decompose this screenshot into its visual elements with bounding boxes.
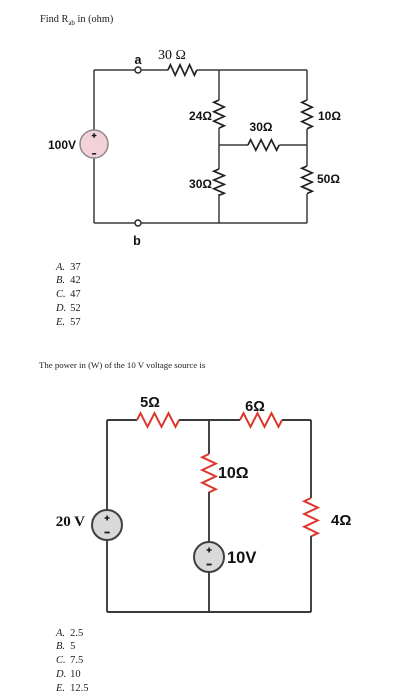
wire 10ohm to 10V source [208,492,210,542]
label 100V [48,138,76,152]
label 10ohm (circuit 2) [218,465,249,482]
wire left vertical (top segment) [93,70,95,130]
wire left vertical bottom (circuit 2) [106,540,108,612]
wire middle branch: top wire down to 24ohm [218,70,220,100]
wire node a to resistor 30ohm [141,69,168,71]
node a (open terminal) [135,67,141,73]
wire 4ohm to bottom-right corner [310,536,312,612]
label 20 V [56,514,85,530]
svg-text:6Ω: 6Ω [245,399,265,415]
options problem 1 [56,261,81,330]
label 5ohm [140,395,160,411]
wire middle branch top [208,420,210,454]
wire top: left corner to 5ohm [107,419,137,421]
wire middle horizontal: node to 30ohm [219,144,248,146]
svg-text:30Ω: 30Ω [189,177,212,191]
title problem 1 [40,14,113,27]
wire 24ohm to middle node [218,128,220,169]
svg-text:24Ω: 24Ω [189,109,212,123]
label a [135,53,143,67]
resistor R 30ohm (top) [168,65,197,75]
svg-text:10Ω: 10Ω [218,465,249,482]
resistor 50ohm [302,166,312,194]
svg-text:a: a [135,53,143,67]
resistor 4ohm [304,498,318,536]
label 10ohm [318,109,341,123]
svg-text:50Ω: 50Ω [317,172,340,186]
svg-text:b: b [133,234,141,248]
svg-text:10V: 10V [227,549,256,567]
wire left vertical top (circuit 2) [106,420,108,510]
label 50ohm [317,172,340,186]
wire 6ohm to top-right corner [282,419,311,421]
wire resistor to top-right corner [197,69,307,71]
voltage source 10V [194,542,224,572]
label b [133,234,141,248]
wire 10ohm to 50ohm [306,129,308,166]
svg-text:100V: 100V [48,138,76,152]
wire bottom: node b to right [141,222,307,224]
resistor 10ohm (circuit 2) [202,454,216,492]
label 24ohm [189,109,212,123]
wire right vertical top (circuit 2) [310,420,312,498]
wire 10V source to bottom [208,572,210,612]
resistor 30ohm (middle vertical) [214,169,224,195]
svg-text:20 V: 20 V [56,514,85,530]
resistor 24ohm [214,100,224,128]
options problem 2 [56,627,89,696]
wire left vertical (bottom segment) [93,158,95,223]
resistor 6ohm [240,413,282,427]
wire top: left to node a [94,69,135,71]
voltage source 20V [92,510,122,540]
wire 50ohm to bottom-right corner [306,194,308,223]
wire 5ohm to 6ohm (through middle node) [179,419,240,421]
label 10V [227,549,256,567]
svg-text:30Ω: 30Ω [250,120,273,134]
wire bottom (circuit 2) [107,611,311,613]
wire 30ohm middle to right branch [279,144,307,146]
label 4ohm [331,512,351,529]
label 30ohm (middle vertical) [189,177,212,191]
resistor 10ohm [302,100,312,129]
label 6ohm [245,399,265,415]
wire 30ohm to bottom [218,194,220,223]
svg-text:5Ω: 5Ω [140,395,160,411]
svg-text:30 Ω: 30 Ω [158,48,186,63]
svg-text:4Ω: 4Ω [331,512,351,529]
wire bottom: left to node b [94,222,135,224]
svg-text:10Ω: 10Ω [318,109,341,123]
wire right branch: top to 10ohm [306,70,308,100]
resistor 5ohm [137,413,179,427]
voltage source V1 100V [80,130,108,158]
label 30 ohm (top) [158,48,186,63]
label 30ohm (middle) [250,120,273,134]
node b (open terminal) [135,220,141,226]
resistor 30ohm (middle horizontal) [248,140,279,150]
title problem 2 [39,360,205,370]
